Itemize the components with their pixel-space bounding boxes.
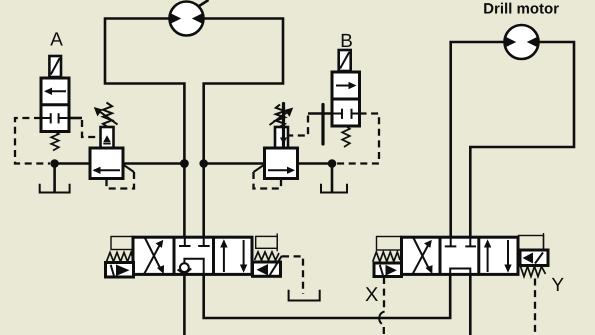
label Y xyxy=(552,278,564,291)
wire M1 right branch xyxy=(203,19,283,238)
node P2 xyxy=(199,159,208,168)
node A drain junction xyxy=(50,159,59,168)
V2 right actuator cover xyxy=(519,233,544,250)
V2 right spring xyxy=(521,267,546,277)
V1 right spring xyxy=(255,252,280,260)
label Drill motor xyxy=(484,3,559,14)
pilot line Y xyxy=(534,279,536,335)
V2 left spring xyxy=(373,252,400,262)
label A xyxy=(50,32,63,45)
V1 left spring xyxy=(107,253,134,262)
solenoid valve B xyxy=(332,50,360,126)
wire RV2 to node B xyxy=(298,162,333,165)
motor M2 drill motor xyxy=(505,25,539,59)
label X xyxy=(365,287,377,301)
V2 left actuator cover xyxy=(377,237,402,251)
wire V1 T port to V2 xyxy=(204,259,451,318)
wire node P2 to RV2 xyxy=(204,162,265,165)
spring valve A xyxy=(51,132,59,151)
drain RV2 xyxy=(254,165,265,173)
pilot line valve B right loop xyxy=(336,114,379,164)
wire to tank B xyxy=(331,164,334,193)
V1 left box crossed arrows xyxy=(144,238,164,275)
wire M1 left branch xyxy=(105,19,184,238)
label B xyxy=(342,34,352,47)
wire to tank A xyxy=(53,164,56,193)
valve V1 directional xyxy=(133,237,252,274)
V2 right solenoid xyxy=(520,250,548,266)
pilot line valve A left loop xyxy=(15,118,50,164)
wire M2 right branch xyxy=(470,42,574,246)
wire RV1 to node P1 xyxy=(123,162,184,165)
tank B xyxy=(321,184,347,193)
V2 center box blocked ports and bypass xyxy=(445,238,476,275)
pilot line valve B to RV2 xyxy=(308,112,332,115)
arrow RV2 adjustable xyxy=(270,111,290,125)
spring RV2 xyxy=(276,105,285,128)
pin RV2 stem xyxy=(282,104,285,146)
V1 right box parallel arrows xyxy=(220,239,247,272)
tank A xyxy=(40,184,70,193)
motor M1 xyxy=(170,0,209,36)
node B drain junction xyxy=(328,159,337,168)
V1 left actuator cover xyxy=(111,237,133,250)
V1 left solenoid xyxy=(106,263,134,278)
V1 center box blocked ports and check xyxy=(178,238,210,274)
node P1 xyxy=(180,159,189,168)
V2 left box crossed arrows xyxy=(412,238,432,275)
drain RV1 xyxy=(123,165,134,173)
tank V1 drain xyxy=(289,290,320,301)
relief valve RV1 xyxy=(90,127,123,179)
bar near valve B xyxy=(321,105,324,145)
wire V1 P port down xyxy=(183,259,186,335)
V2 left solenoid xyxy=(374,263,402,277)
wire V2 right bottom port down xyxy=(469,269,472,335)
drain line V1 to tank xyxy=(282,256,303,294)
V2 right box parallel arrows xyxy=(484,239,512,272)
V1 right solenoid xyxy=(253,256,282,276)
wire M2 left branch xyxy=(451,42,505,246)
solenoid valve A xyxy=(41,56,69,132)
valve V2 directional xyxy=(402,237,519,274)
spring valve B xyxy=(342,126,350,147)
V1 right actuator cover xyxy=(256,233,278,251)
pilot line X xyxy=(379,277,384,335)
spring RV1 xyxy=(103,103,112,128)
relief valve RV2 xyxy=(265,127,298,179)
wire main pressure line left xyxy=(55,162,90,165)
arrow RV1 adjustable xyxy=(98,110,118,124)
pilot line valve A to RV1 xyxy=(69,117,82,120)
